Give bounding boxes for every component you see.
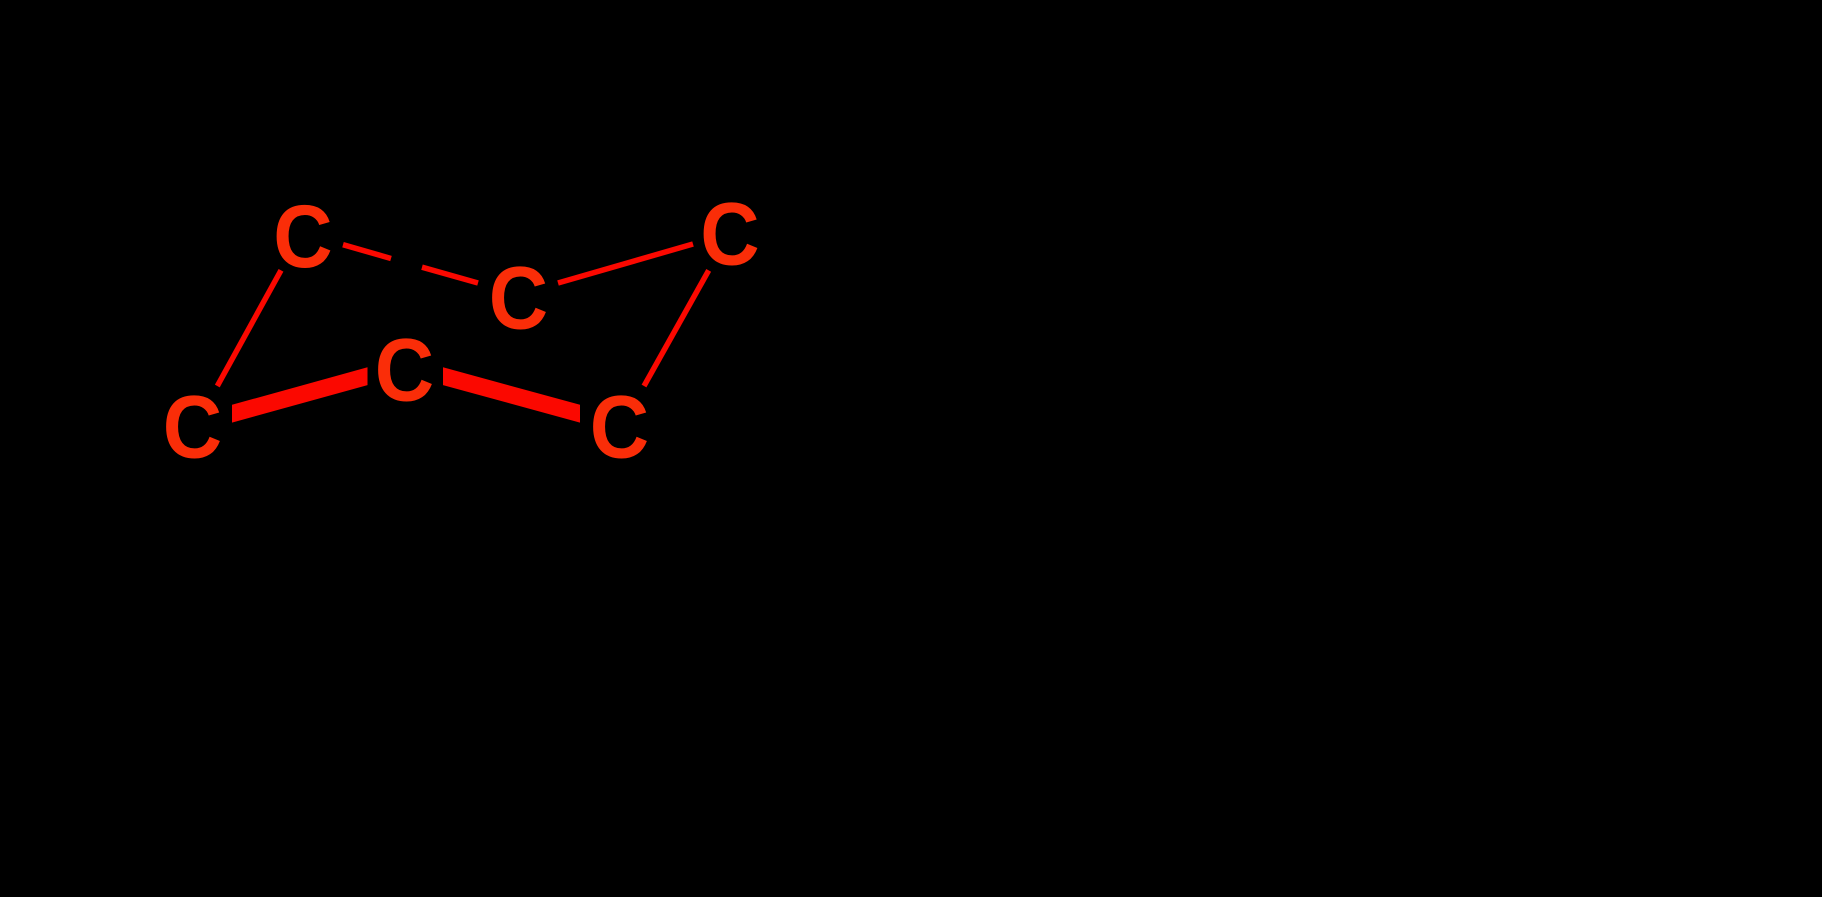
svg-text:C: C xyxy=(700,184,759,284)
svg-text:C: C xyxy=(489,248,548,348)
svg-text:C: C xyxy=(163,377,222,477)
svg-text:C: C xyxy=(273,187,332,287)
svg-text:C: C xyxy=(375,320,434,420)
svg-text:C: C xyxy=(590,377,649,477)
